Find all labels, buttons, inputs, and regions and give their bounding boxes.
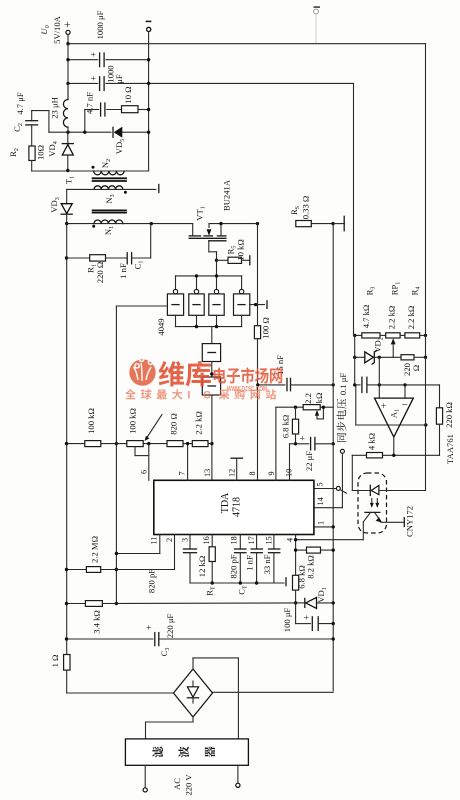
resistor 220k feedback [436,385,454,455]
inductor 23uH [50,83,69,132]
svg-text:CNY172: CNY172 [405,506,415,537]
potentiometer 100k [127,408,162,455]
node -input [403,383,406,386]
node C1 tap [150,222,153,225]
resistor 820 Ohm [167,413,183,446]
svg-text:6.8 kΩ: 6.8 kΩ [281,415,291,439]
transformer T1 core lines upper [92,178,127,181]
svg-text:1: 1 [317,521,326,525]
node zener row left [353,356,356,359]
svg-text:+: + [302,615,312,620]
svg-text:2.2: 2.2 [303,393,313,404]
resistor 2.2k row [192,411,208,446]
node divider left [353,334,356,337]
svg-text:+: + [381,402,386,412]
svg-text:6: 6 [140,470,149,474]
wire rectified node py=132.2 [49,131,111,133]
wire timing ground py=583 [190,578,286,586]
wire bridge top AC [193,658,238,739]
transformer T1 winding N1 [67,220,193,235]
node cap2 left [66,82,69,85]
svg-text:+: + [62,21,74,28]
label AC 220V [172,774,194,796]
ground bar N3 [158,185,160,193]
node pin7 row [186,442,189,445]
ground bar emitter [403,518,405,527]
wire raw DC bus px=333 [332,224,334,691]
node 3.4k crossing [115,602,118,605]
wire feedback row py=443.6 [66,443,212,445]
svg-text:14: 14 [316,497,325,505]
node CT gnd [239,581,242,584]
node 15nF right bus [332,383,335,386]
svg-text:TDA: TDA [220,492,231,513]
wire bridge plus py=692 [213,691,334,693]
svg-text:7: 7 [178,471,187,475]
node pin6 row [147,442,150,445]
svg-text:C: C [203,390,211,402]
capacitor 15nF [258,355,334,391]
resistor R4 2.2k [405,287,426,338]
capacitor C3 220uF [66,614,333,657]
node divider right bus [424,334,427,337]
svg-text:100 kΩ: 100 kΩ [86,408,96,434]
svg-text:4: 4 [286,538,295,542]
resistor 8.2k [296,547,334,579]
inverter U2f 4049 [202,377,220,480]
svg-text:18: 18 [230,536,239,544]
node pin11 left bus [115,552,118,555]
svg-text:4718: 4718 [232,497,243,517]
wire LED cathode drop [352,455,370,490]
node VD5 cathode bus [147,131,150,134]
node inductor bottom [66,131,69,134]
diode VD5 [113,127,149,155]
svg-text:WWW.DZSC.COM: WWW.DZSC.COM [227,384,267,393]
svg-text:17: 17 [247,536,256,544]
pin 12 [228,458,243,480]
svg-text:100 Ω: 100 Ω [261,317,271,338]
svg-text:15 nF: 15 nF [275,355,285,375]
inverter U2c 4049 [209,289,224,326]
capacitor 0.1uF [338,373,379,395]
svg-text:4 kΩ: 4 kΩ [367,433,377,450]
svg-text:2.2 MΩ: 2.2 MΩ [90,536,100,563]
resistor R1 220 Ohm [67,255,127,284]
pin 6 [140,444,149,481]
svg-text:13: 13 [203,469,212,477]
diode VD2 zener [365,337,393,364]
svg-text:5V/10A: 5V/10A [52,15,62,43]
watermark logo [129,357,155,386]
capacitor 1000uF #2 [68,65,354,90]
inverter U2d 4049 [234,289,250,326]
node +input zener row [378,356,381,359]
resistor 2.2M [66,536,175,572]
node RT gnd [211,581,214,584]
op-amp A1 [375,357,414,455]
svg-text:5: 5 [316,482,325,486]
resistor 3.4k [66,601,296,634]
phototransistor CNY172 [363,512,403,539]
wire pin8 net px=257.5 [257,224,259,481]
resistor R5 10k [217,239,249,263]
node row left bus [65,442,68,445]
svg-text:8.2 kΩ: 8.2 kΩ [306,555,316,579]
svg-text:10Ω: 10Ω [36,145,46,160]
node snubber tap [83,131,86,134]
svg-text:+: + [298,436,308,441]
node bus 2.2k row [332,442,335,445]
resistor 220 Ohm [393,355,425,376]
node VD4 anode [66,169,69,172]
label sync voltage [336,399,346,442]
svg-text:4.7 kΩ: 4.7 kΩ [361,305,371,329]
svg-text:10 kΩ: 10 kΩ [236,239,246,260]
svg-text:2.2 kΩ: 2.2 kΩ [387,306,397,330]
wire sense vertical px=354.7 [354,83,426,425]
svg-text:4.7 nF: 4.7 nF [85,92,95,114]
diode VD3 [49,189,72,223]
node C3 right bus [332,637,335,640]
svg-text:220 kΩ: 220 kΩ [444,402,454,428]
wire left bus px=66.8 [66,224,68,655]
node op-amp output [392,454,395,457]
svg-text:4049: 4049 [156,318,166,335]
node 2.2M crossing [115,568,118,571]
capacitor 100uF [282,608,333,633]
svg-text:0.1 μF: 0.1 μF [338,373,348,395]
node U2d bar tap [254,303,257,306]
resistor 10 Ohm snubber [122,86,149,112]
terminal - (near return bus) [146,21,152,32]
svg-text:12: 12 [228,469,237,477]
node gate wire b [215,274,218,277]
svg-text:1 nF: 1 nF [245,555,255,571]
wire U2d to supply bar [250,301,267,309]
inverter U2e 4049 [202,327,220,362]
node VD1 right bus [332,601,335,604]
node 8.2k right bus [332,548,335,551]
svg-text:23 μH: 23 μH [50,97,60,119]
node 1nF gnd [255,581,258,584]
node input bus b [215,325,218,328]
svg-text:1 Ω: 1 Ω [50,655,60,668]
pin 16 + resistor RT 12k [197,535,217,596]
optocoupler CNY172 dashed box [358,473,387,533]
diode VD1 [296,587,334,608]
resistor R2 10 Ohm [8,145,46,171]
node 2.2M left bus [65,568,68,571]
svg-text:820 pF: 820 pF [229,554,239,578]
svg-text:+: + [89,76,99,81]
node 8.2k left [294,548,297,551]
svg-text:3.4 kΩ: 3.4 kΩ [92,610,102,634]
pin 3 + capacitor 820pF [147,535,197,594]
node 100k row left-bus [115,442,118,445]
transformer T1 winding N2 [92,159,149,175]
wire pin9 row py=407.2 [276,407,303,480]
node 220 right bus [424,356,427,359]
trimmer 2.2k pin9 [303,393,333,419]
resistor R3 4.7k [361,287,386,338]
wire bridge minus py=693 [67,692,174,694]
node supply crossing [424,423,427,426]
terminal AC N [236,765,240,787]
svg-text:Ω: Ω [411,365,421,371]
capacitor 1000uF #1 [68,10,149,66]
label U0 5V/10A [39,15,62,43]
svg-text:+: + [144,625,154,630]
svg-text:10 Ω: 10 Ω [123,86,133,103]
svg-text:100 kΩ: 100 kΩ [128,408,138,434]
node input bus a [195,325,198,328]
filter box [125,739,248,765]
wire +5V rail A py=43.7 [68,35,426,44]
wire pin11 to U2a input [116,306,167,604]
svg-text:220 μF: 220 μF [165,614,175,639]
svg-text:4.7 μF: 4.7 μF [15,92,25,114]
svg-text:0.33 Ω: 0.33 Ω [301,196,311,220]
svg-text:I: I [187,390,190,402]
svg-text:100 μF: 100 μF [282,608,292,633]
ground bar RS [333,216,344,231]
node 6.8k tap [294,406,297,409]
pin 1 stub [314,526,333,528]
resistor 4k [367,433,383,458]
svg-text:kΩ: kΩ [314,393,324,404]
capacitor C2 4.7uF [12,92,49,146]
wire bridge bottom AC [146,717,194,739]
svg-text:12 kΩ: 12 kΩ [197,556,207,577]
node cap2 mid [147,82,150,85]
svg-text:9: 9 [267,471,276,475]
watermark slogan [125,389,276,401]
wire return bus px=148.5 [148,32,150,172]
bridge rectifier [174,669,213,717]
svg-text:1 nF: 1 nF [118,263,128,279]
pin 2 [165,535,175,570]
terminal - output (faint) [314,6,321,43]
node pin1 bus [332,525,335,528]
resistor RS 0.33 Ohm [289,196,333,227]
terminal AC L [143,765,147,792]
pin 5 stub and switch [314,486,347,493]
resistor 6.8k pin4 [293,565,307,623]
node 100 Ohm tap [256,222,259,225]
IC U1 TDA4718 [154,480,314,534]
ground bar R5 [249,256,251,265]
svg-text:μF: μF [114,74,124,84]
resistor 1 Ohm [50,655,70,694]
node gate wire a [195,274,198,277]
watermark text dianzi shichang wang [214,367,283,383]
node gate R5 [215,259,218,262]
svg-text:22 μF: 22 μF [304,451,314,471]
resistor 100k fixed [85,408,101,446]
wire +5 bus px=425.5 [425,44,427,491]
diode VD4 [47,132,73,170]
wire inverter input bus py=326.6 [176,326,242,328]
pin 15 + capacitor 33nF [262,535,280,584]
node VD1 left [294,601,297,604]
svg-text:16: 16 [202,536,211,544]
node 0.1uF left [353,383,356,386]
node RS right [331,222,334,225]
svg-text:2.2 kΩ: 2.2 kΩ [194,411,204,435]
node R1 tap [65,256,68,259]
svg-text:1000 μF: 1000 μF [95,10,105,39]
node snubber right [147,108,150,111]
node +5V rail A start [66,42,69,45]
node cap1 right [147,58,150,61]
wire gate drive py=275.9 [176,260,242,289]
resistor 100 Ohm [254,317,270,338]
wire N2 top py=171 [32,170,94,172]
svg-text:11: 11 [150,537,159,545]
svg-text:BU241A: BU241A [222,179,232,211]
svg-text:AC: AC [172,778,182,790]
svg-text:3: 3 [181,538,190,542]
transistor VT1 BU241A mosfet [189,179,257,260]
watermark text weiku [159,361,211,387]
node N1 left VD3 [65,222,68,225]
node 100uF right bus [332,622,335,625]
wire +V vertical px=68 [67,44,69,99]
terminal + output U0 [62,21,74,34]
LED of CNY172 [370,485,425,495]
node C3 left bus [65,637,68,640]
svg-text:220 V: 220 V [184,774,194,796]
pin 14 stub [314,507,343,509]
inverter U2b 4049 [189,289,204,326]
resistor 6.8k pin9 [281,407,299,444]
terminal sync [340,449,344,507]
svg-text:820 Ω: 820 Ω [169,413,179,434]
pin 17 + capacitor 1nF [245,535,263,584]
svg-text:820 pF: 820 pF [147,569,157,593]
op-amp divider row: wire py=335.4 [355,334,362,336]
capacitor 22uF [298,436,334,471]
node U2f out row wire [210,442,213,445]
pin 11 [116,535,159,554]
node +input [378,383,381,386]
capacitor 4.7nF snubber [85,92,122,132]
svg-text:220 Ω: 220 Ω [95,262,105,283]
light arrows [370,499,379,508]
svg-text:+: + [89,52,99,57]
svg-text:2: 2 [165,538,174,542]
node interstage [210,362,213,378]
node 3.4k left bus [65,602,68,605]
node trimmer wiper [322,406,325,409]
wire zener row py=357.3 [355,356,365,358]
node 6.8k bottom [294,442,297,445]
svg-text:2.2 kΩ: 2.2 kΩ [406,306,416,330]
svg-text:33 nF: 33 nF [262,554,272,574]
node 15nF left [256,383,259,386]
svg-text:−: − [402,399,408,411]
svg-text:8: 8 [248,471,257,475]
node cap1 left [66,58,69,61]
inverter U2a 4049 [167,289,183,326]
pin 18 + capacitor CT 820pF [229,535,249,595]
wire pin4 to phototransistor [296,539,364,541]
svg-text:6.8 kΩ: 6.8 kΩ [297,565,307,589]
wire op-amp output row py=455.3 [352,454,439,456]
transformer T1 winding N3 [67,186,156,204]
wire pin10 row py=443.8 [290,444,309,481]
capacitor C1 1nF [118,224,151,279]
svg-text:15: 15 [265,536,274,544]
node VT1 drain-bus [219,222,222,225]
node pin4 top [294,538,297,541]
wire op-amp input row py=384.9 [379,384,439,386]
pin 7 [178,444,188,481]
svg-text:TAA761: TAA761 [445,434,455,464]
transformer T1 core lines lower [92,210,127,212]
pin 4 [286,535,296,576]
potentiometer RP1 2.2k [386,282,405,358]
